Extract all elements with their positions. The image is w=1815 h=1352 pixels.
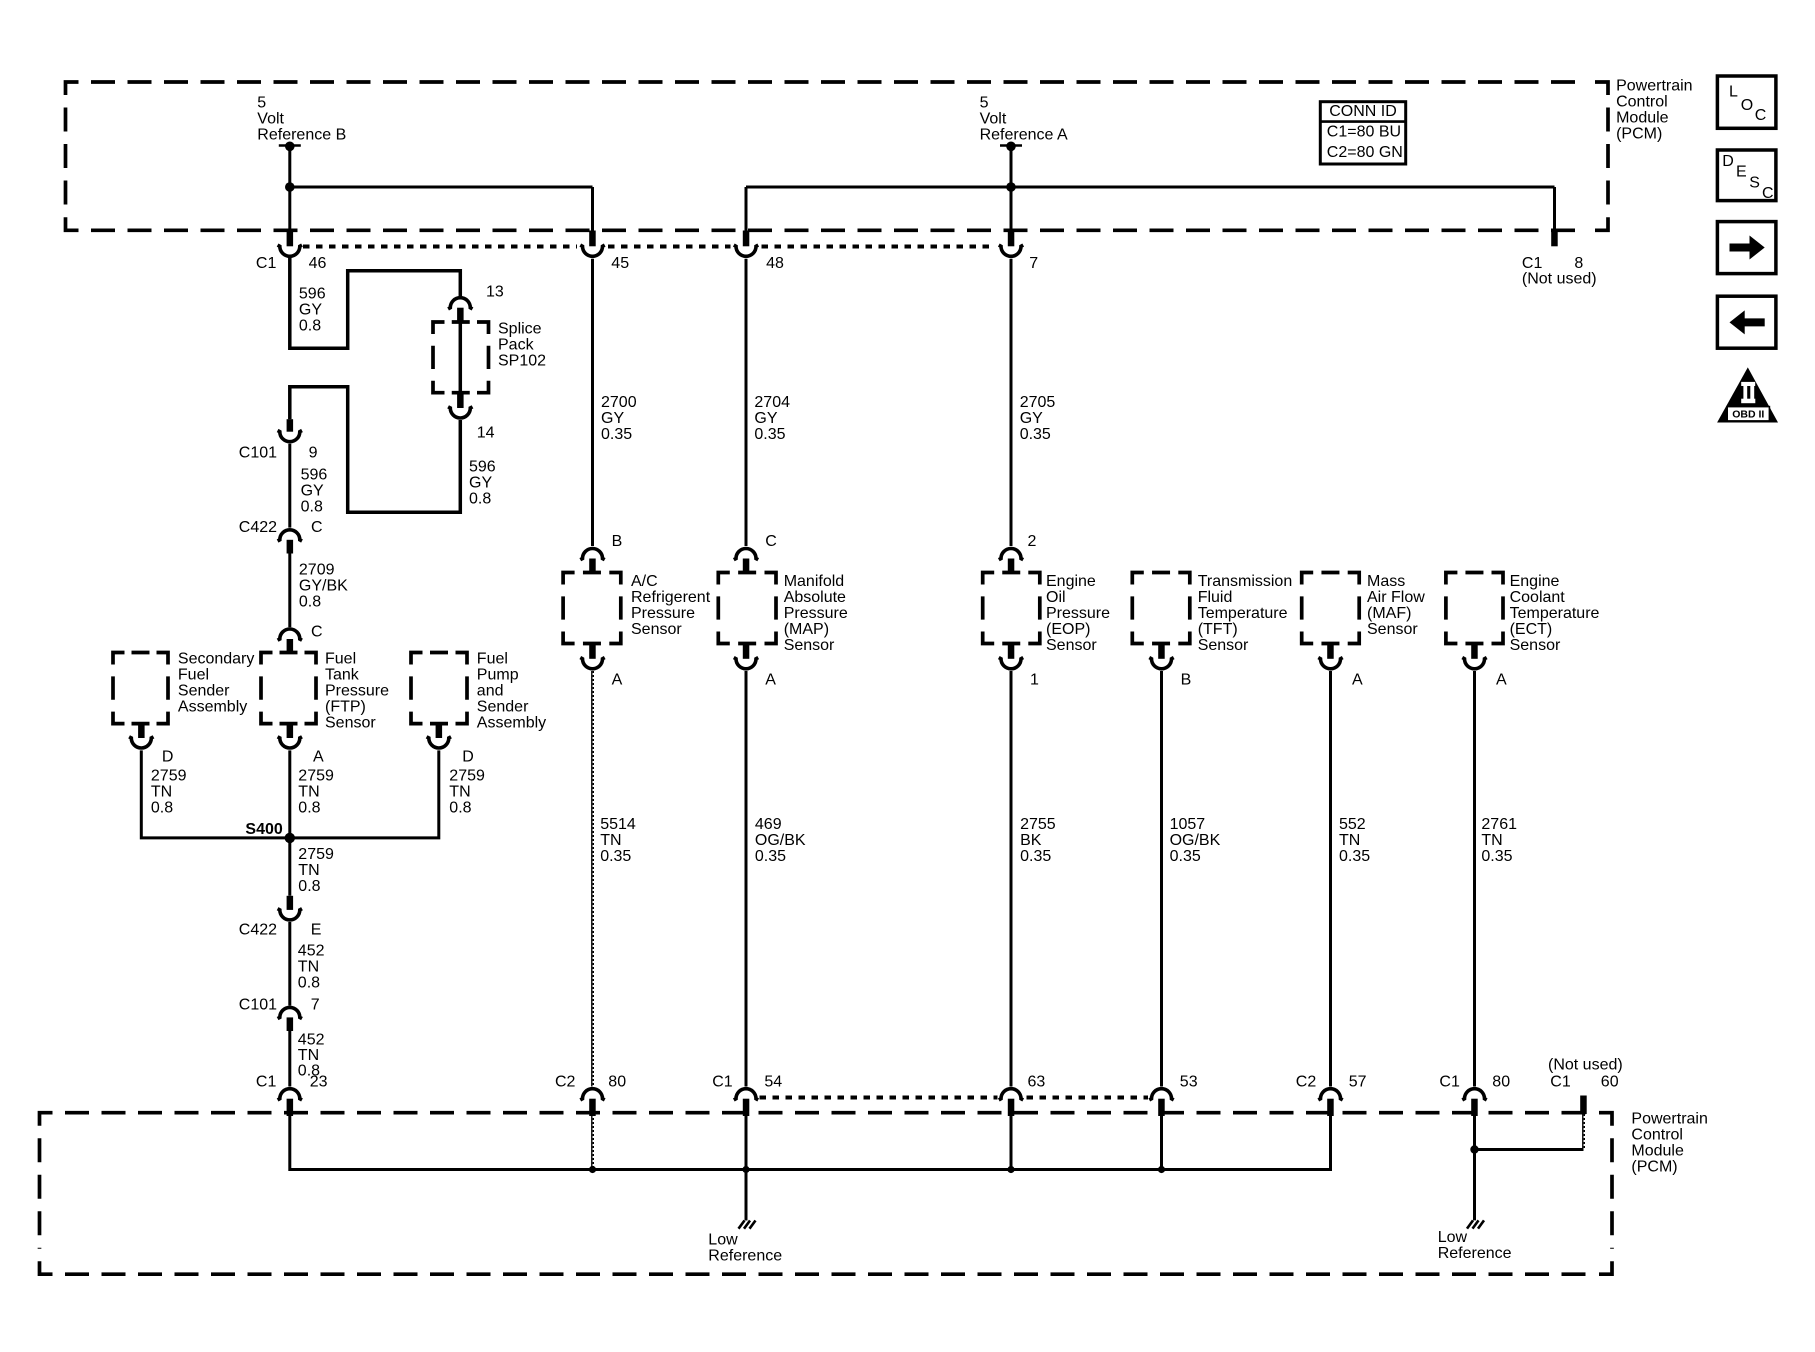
svg-text:0.8: 0.8 [298,800,320,817]
svg-text:Sensor: Sensor [784,637,835,654]
svg-text:2759: 2759 [449,768,485,785]
svg-text:GY: GY [469,475,492,492]
svg-text:Fuel: Fuel [477,651,508,668]
svg-text:C: C [311,624,323,641]
svg-text:A: A [612,671,623,688]
svg-text:Control: Control [1631,1127,1683,1144]
svg-text:A: A [313,749,324,766]
svg-text:(TFT): (TFT) [1198,621,1238,638]
svg-text:Air Flow: Air Flow [1367,589,1425,606]
svg-text:Sensor: Sensor [1367,621,1418,638]
svg-text:C1: C1 [1550,1074,1571,1091]
svg-text:(PCM): (PCM) [1631,1159,1677,1176]
svg-text:GY: GY [301,483,324,500]
svg-text:Low: Low [708,1232,738,1249]
svg-text:C1=80 BU: C1=80 BU [1327,124,1401,141]
svg-text:OG/BK: OG/BK [755,832,806,849]
svg-text:L: L [1729,84,1738,101]
svg-text:Pack: Pack [498,337,535,354]
svg-text:2704: 2704 [754,394,790,411]
svg-text:552: 552 [1339,816,1366,833]
svg-text:0.35: 0.35 [1481,848,1512,865]
svg-text:0.8: 0.8 [301,499,323,516]
svg-text:8: 8 [1574,255,1583,272]
svg-text:0.35: 0.35 [1170,848,1201,865]
svg-text:TN: TN [151,784,172,801]
svg-text:E: E [311,921,322,938]
svg-text:Fluid: Fluid [1198,589,1233,606]
svg-text:TN: TN [1339,832,1360,849]
svg-text:Pump: Pump [477,667,519,684]
svg-text:Transmission: Transmission [1198,573,1293,590]
svg-text:C1: C1 [256,1074,277,1091]
svg-text:13: 13 [486,284,504,301]
svg-text:60: 60 [1601,1074,1619,1091]
svg-text:Sensor: Sensor [325,715,376,732]
svg-text:Oil: Oil [1046,589,1066,606]
svg-text:2705: 2705 [1020,394,1056,411]
svg-text:Assembly: Assembly [477,715,546,732]
svg-text:Fuel: Fuel [325,651,356,668]
svg-text:7: 7 [311,996,320,1013]
svg-text:TN: TN [298,862,319,879]
svg-text:O: O [1741,97,1753,114]
svg-text:2761: 2761 [1481,816,1517,833]
svg-text:(Not used): (Not used) [1548,1056,1623,1073]
svg-text:A: A [1496,671,1507,688]
svg-text:Pressure: Pressure [325,683,389,700]
svg-text:2759: 2759 [151,768,187,785]
svg-text:57: 57 [1349,1074,1367,1091]
svg-text:Absolute: Absolute [784,589,846,606]
svg-text:Volt: Volt [980,111,1007,128]
svg-text:Control: Control [1616,94,1668,111]
svg-text:Sensor: Sensor [1046,637,1097,654]
svg-text:53: 53 [1180,1074,1198,1091]
svg-text:0.35: 0.35 [1020,848,1051,865]
svg-text:Manifold: Manifold [784,573,844,590]
svg-text:TN: TN [1481,832,1502,849]
svg-text:TN: TN [298,784,319,801]
svg-text:Pressure: Pressure [631,605,695,622]
svg-text:Engine: Engine [1046,573,1096,590]
svg-text:54: 54 [764,1074,782,1091]
svg-text:(PCM): (PCM) [1616,126,1662,143]
svg-text:2709: 2709 [299,562,335,579]
svg-text:(FTP): (FTP) [325,699,366,716]
svg-text:D: D [462,749,474,766]
svg-text:14: 14 [477,424,495,441]
svg-text:0.35: 0.35 [600,848,631,865]
svg-text:Assembly: Assembly [178,699,247,716]
svg-text:46: 46 [309,255,327,272]
svg-text:E: E [1736,164,1747,181]
svg-text:7: 7 [1029,255,1038,272]
svg-text:Engine: Engine [1510,573,1560,590]
svg-text:Volt: Volt [257,111,284,128]
svg-text:GY: GY [1020,410,1043,427]
svg-text:(ECT): (ECT) [1510,621,1553,638]
svg-text:0.8: 0.8 [469,491,491,508]
svg-text:TN: TN [298,959,319,976]
svg-text:5514: 5514 [600,816,636,833]
svg-text:0.8: 0.8 [299,318,321,335]
svg-text:C2: C2 [555,1074,576,1091]
svg-text:Sensor: Sensor [631,621,682,638]
svg-text:Sender: Sender [477,699,529,716]
svg-text:23: 23 [310,1074,328,1091]
svg-text:TN: TN [600,832,621,849]
svg-text:0.8: 0.8 [299,594,321,611]
svg-text:(EOP): (EOP) [1046,621,1090,638]
svg-text:OBD II: OBD II [1732,408,1764,420]
svg-text:A/C: A/C [631,573,658,590]
svg-text:Mass: Mass [1367,573,1405,590]
svg-text:GY: GY [601,410,624,427]
svg-text:Temperature: Temperature [1198,605,1288,622]
svg-text:596: 596 [301,467,328,484]
svg-text:TN: TN [298,1047,319,1064]
svg-text:9: 9 [309,444,318,461]
svg-text:Refrigerent: Refrigerent [631,589,711,606]
svg-text:CONN ID: CONN ID [1329,103,1397,120]
svg-text:GY: GY [754,410,777,427]
svg-text:SP102: SP102 [498,353,546,370]
svg-text:0.35: 0.35 [755,848,786,865]
svg-text:Sensor: Sensor [1510,637,1561,654]
svg-text:Secondary: Secondary [178,651,255,668]
svg-text:A: A [1352,671,1363,688]
svg-text:80: 80 [1492,1074,1510,1091]
svg-text:Coolant: Coolant [1510,589,1566,606]
svg-text:(MAF): (MAF) [1367,605,1411,622]
svg-text:Module: Module [1616,110,1669,127]
svg-text:D: D [162,749,174,766]
svg-text:C422: C422 [239,921,277,938]
svg-text:C1: C1 [1439,1074,1460,1091]
svg-text:Temperature: Temperature [1510,605,1600,622]
svg-text:Pressure: Pressure [784,605,848,622]
svg-text:0.8: 0.8 [151,800,173,817]
svg-text:C: C [1755,107,1767,124]
svg-text:Reference A: Reference A [980,127,1068,144]
svg-text:C101: C101 [239,444,277,461]
svg-text:48: 48 [766,255,784,272]
svg-text:0.35: 0.35 [601,426,632,443]
svg-text:2759: 2759 [298,846,334,863]
svg-text:1057: 1057 [1170,816,1206,833]
svg-text:452: 452 [298,943,325,960]
svg-text:BK: BK [1020,832,1042,849]
svg-text:C: C [1762,185,1774,202]
svg-text:5: 5 [980,95,989,112]
svg-text:C1: C1 [256,255,277,272]
svg-text:45: 45 [611,255,629,272]
svg-text:0.35: 0.35 [754,426,785,443]
svg-text:GY: GY [299,302,322,319]
svg-text:S: S [1749,175,1760,192]
svg-text:D: D [1722,153,1734,170]
svg-text:A: A [765,671,776,688]
svg-text:80: 80 [608,1074,626,1091]
svg-text:B: B [1181,671,1192,688]
svg-text:Powertrain: Powertrain [1631,1111,1707,1128]
svg-text:469: 469 [755,816,782,833]
svg-text:Tank: Tank [325,667,360,684]
svg-text:Powertrain: Powertrain [1616,78,1692,95]
svg-text:596: 596 [299,286,326,303]
svg-text:0.35: 0.35 [1020,426,1051,443]
svg-text:0.8: 0.8 [298,878,320,895]
svg-text:Reference: Reference [708,1248,782,1265]
svg-text:(Not used): (Not used) [1522,271,1597,288]
svg-text:(MAP): (MAP) [784,621,829,638]
svg-text:Sensor: Sensor [1198,637,1249,654]
svg-text:Reference: Reference [1438,1245,1512,1262]
svg-text:C422: C422 [239,519,277,536]
svg-text:C: C [311,519,323,536]
svg-text:452: 452 [298,1031,325,1048]
svg-text:GY/BK: GY/BK [299,578,348,595]
svg-text:OG/BK: OG/BK [1170,832,1221,849]
svg-text:0.8: 0.8 [449,800,471,817]
svg-text:C1: C1 [712,1074,733,1091]
svg-text:S400: S400 [245,821,282,838]
svg-text:2759: 2759 [298,768,334,785]
svg-text:Low: Low [1438,1229,1468,1246]
svg-text:Fuel: Fuel [178,667,209,684]
svg-text:5: 5 [257,95,266,112]
svg-text:C2: C2 [1296,1074,1317,1091]
svg-text:C2=80 GN: C2=80 GN [1327,144,1403,161]
svg-text:1: 1 [1030,671,1039,688]
svg-text:C101: C101 [239,996,277,1013]
svg-text:and: and [477,683,504,700]
svg-text:2755: 2755 [1020,816,1056,833]
svg-text:Pressure: Pressure [1046,605,1110,622]
svg-text:C1: C1 [1522,255,1543,272]
svg-text:C: C [765,533,777,550]
svg-text:0.35: 0.35 [1339,848,1370,865]
svg-text:596: 596 [469,459,496,476]
svg-text:Sender: Sender [178,683,230,700]
svg-text:TN: TN [449,784,470,801]
svg-text:2700: 2700 [601,394,637,411]
svg-text:B: B [612,533,623,550]
svg-text:Module: Module [1631,1143,1684,1160]
svg-text:Splice: Splice [498,321,542,338]
svg-text:0.8: 0.8 [298,975,320,992]
svg-text:2: 2 [1028,533,1037,550]
svg-text:63: 63 [1028,1074,1046,1091]
svg-text:Reference B: Reference B [257,127,346,144]
